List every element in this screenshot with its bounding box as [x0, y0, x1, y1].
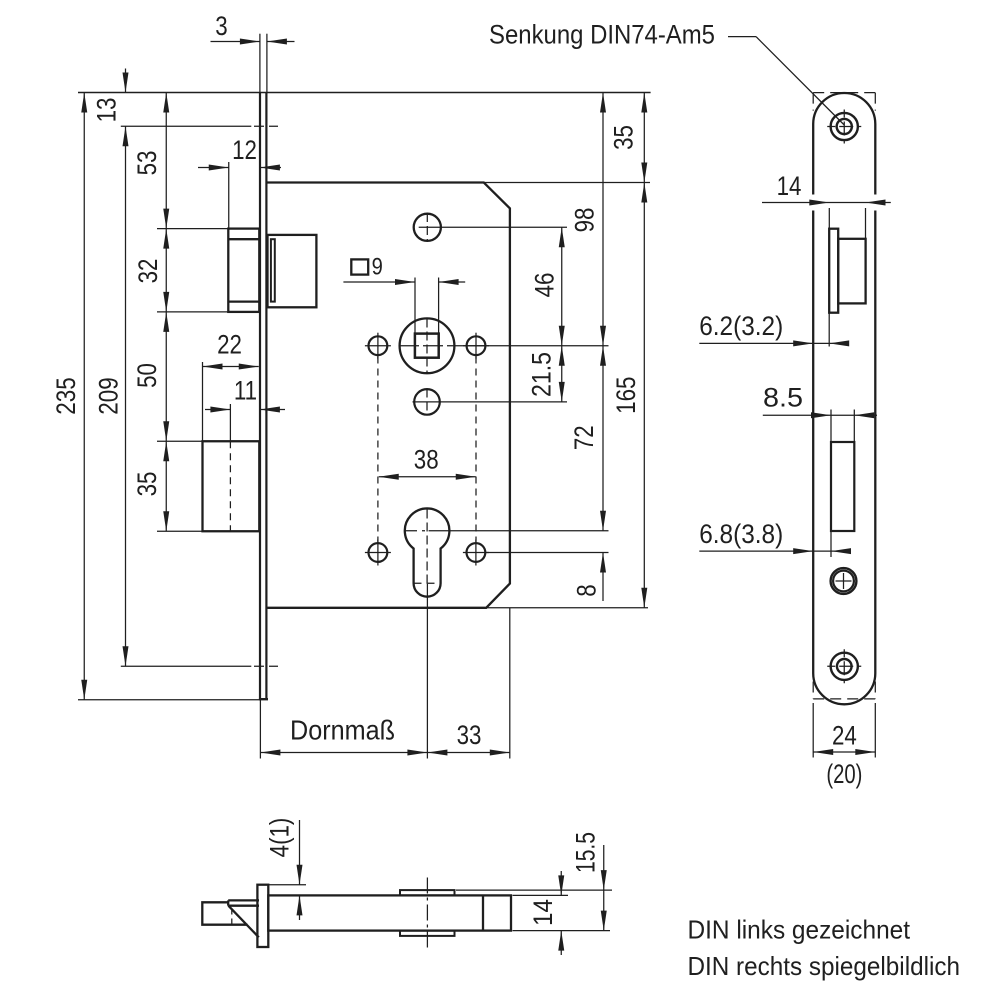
svg-text:38: 38 — [414, 446, 439, 475]
svg-text:46: 46 — [531, 273, 560, 298]
svg-text:8.5: 8.5 — [763, 384, 803, 413]
svg-text:209: 209 — [95, 377, 124, 414]
svg-text:14: 14 — [529, 899, 558, 926]
svg-text:(20): (20) — [826, 760, 862, 789]
svg-text:21.5: 21.5 — [528, 352, 557, 397]
svg-text:35: 35 — [610, 125, 639, 150]
svg-text:6.2(3.2): 6.2(3.2) — [699, 312, 783, 341]
svg-text:Dornmaß: Dornmaß — [290, 716, 395, 746]
svg-text:98: 98 — [571, 208, 600, 233]
svg-text:165: 165 — [612, 376, 641, 413]
svg-text:24: 24 — [832, 722, 857, 751]
svg-text:3: 3 — [215, 12, 227, 41]
svg-text:14: 14 — [777, 172, 802, 201]
svg-text:235: 235 — [52, 377, 81, 414]
svg-text:33: 33 — [457, 721, 482, 750]
svg-text:15.5: 15.5 — [572, 832, 601, 873]
svg-text:6.8(3.8): 6.8(3.8) — [699, 520, 783, 549]
svg-text:50: 50 — [133, 363, 162, 388]
svg-text:8: 8 — [573, 584, 602, 596]
svg-text:4(1): 4(1) — [266, 818, 295, 858]
svg-text:12: 12 — [232, 136, 257, 165]
svg-text:35: 35 — [133, 472, 162, 497]
svg-text:22: 22 — [217, 331, 242, 360]
svg-text:Senkung DIN74-Am5: Senkung DIN74-Am5 — [489, 21, 715, 50]
svg-text:13: 13 — [93, 98, 122, 123]
svg-text:72: 72 — [570, 425, 599, 450]
svg-text:11: 11 — [234, 377, 257, 406]
svg-text:DIN rechts spiegelbildlich: DIN rechts spiegelbildlich — [688, 952, 960, 980]
svg-text:9: 9 — [372, 253, 383, 280]
svg-text:32: 32 — [134, 259, 163, 284]
svg-text:DIN links gezeichnet: DIN links gezeichnet — [687, 916, 910, 944]
svg-text:53: 53 — [133, 151, 162, 176]
